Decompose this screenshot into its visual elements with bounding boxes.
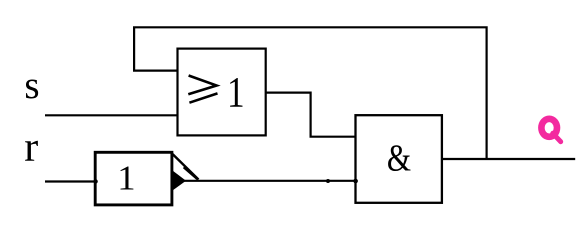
svg-text:r: r bbox=[24, 125, 38, 171]
svg-text:1: 1 bbox=[227, 68, 245, 116]
svg-text:s: s bbox=[24, 64, 39, 107]
svg-text:1: 1 bbox=[117, 158, 135, 197]
svg-text:&: & bbox=[387, 136, 411, 179]
